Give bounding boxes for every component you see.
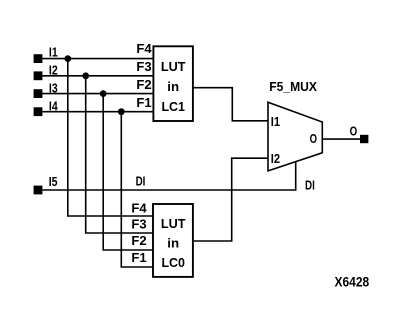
svg-text:I5: I5 xyxy=(49,175,58,189)
svg-text:F1: F1 xyxy=(136,95,151,110)
LUT LC0 box xyxy=(153,204,193,277)
output pad O xyxy=(360,135,368,143)
wire DI net from I5 xyxy=(42,189,295,191)
svg-text:F5_MUX: F5_MUX xyxy=(269,80,317,94)
svg-text:F2: F2 xyxy=(131,233,146,248)
wire DI riser to mux xyxy=(295,162,297,191)
svg-text:F3: F3 xyxy=(136,59,151,74)
svg-text:I1: I1 xyxy=(49,45,58,59)
wire I3 branch down to LC0 F2 xyxy=(103,94,153,250)
junction dot I4 xyxy=(118,108,125,115)
svg-text:O: O xyxy=(310,131,317,146)
input pad I4 xyxy=(34,107,43,116)
svg-text:LUT: LUT xyxy=(161,216,186,231)
input pad I1 xyxy=(34,54,43,63)
wire I2 branch down to LC0 F3 xyxy=(86,76,154,233)
svg-text:LC1: LC1 xyxy=(161,99,185,114)
junction dot I1 xyxy=(64,55,71,62)
input pad I3 xyxy=(34,89,43,98)
wire LC1 output to mux I1 xyxy=(194,88,268,121)
svg-text:DI: DI xyxy=(305,178,315,192)
wire LC0 output to mux I2 xyxy=(194,158,268,241)
wire mux output O xyxy=(323,138,361,140)
input pad I2 xyxy=(34,71,43,80)
wire I1 branch down to LC0 F4 xyxy=(68,59,154,216)
svg-text:F4: F4 xyxy=(131,200,147,215)
junction dot I2 xyxy=(82,72,89,79)
svg-text:DI: DI xyxy=(136,175,146,189)
wire I4 branch down to LC0 F1 xyxy=(121,112,153,267)
wire I3 to LC1 F2 xyxy=(42,93,153,95)
junction dot I3 xyxy=(100,90,107,97)
wire I1 to LC1 F4 xyxy=(42,58,153,60)
svg-text:LC0: LC0 xyxy=(161,255,185,270)
svg-text:O: O xyxy=(350,124,358,139)
mux F5_MUX body xyxy=(268,102,322,171)
svg-text:X6428: X6428 xyxy=(335,274,370,289)
input pad I5 xyxy=(34,186,43,195)
wire I2 to LC1 F3 xyxy=(42,75,153,77)
svg-text:in: in xyxy=(167,235,179,250)
svg-text:F2: F2 xyxy=(136,77,151,92)
svg-text:I2: I2 xyxy=(271,151,280,166)
svg-text:F1: F1 xyxy=(131,250,146,265)
LUT LC1 box xyxy=(153,46,193,121)
svg-text:LUT: LUT xyxy=(161,59,186,74)
svg-text:F3: F3 xyxy=(131,217,146,232)
svg-text:in: in xyxy=(167,79,179,94)
svg-text:F4: F4 xyxy=(136,41,152,56)
svg-text:I1: I1 xyxy=(271,114,280,129)
wire I4 to LC1 F1 xyxy=(42,111,153,113)
